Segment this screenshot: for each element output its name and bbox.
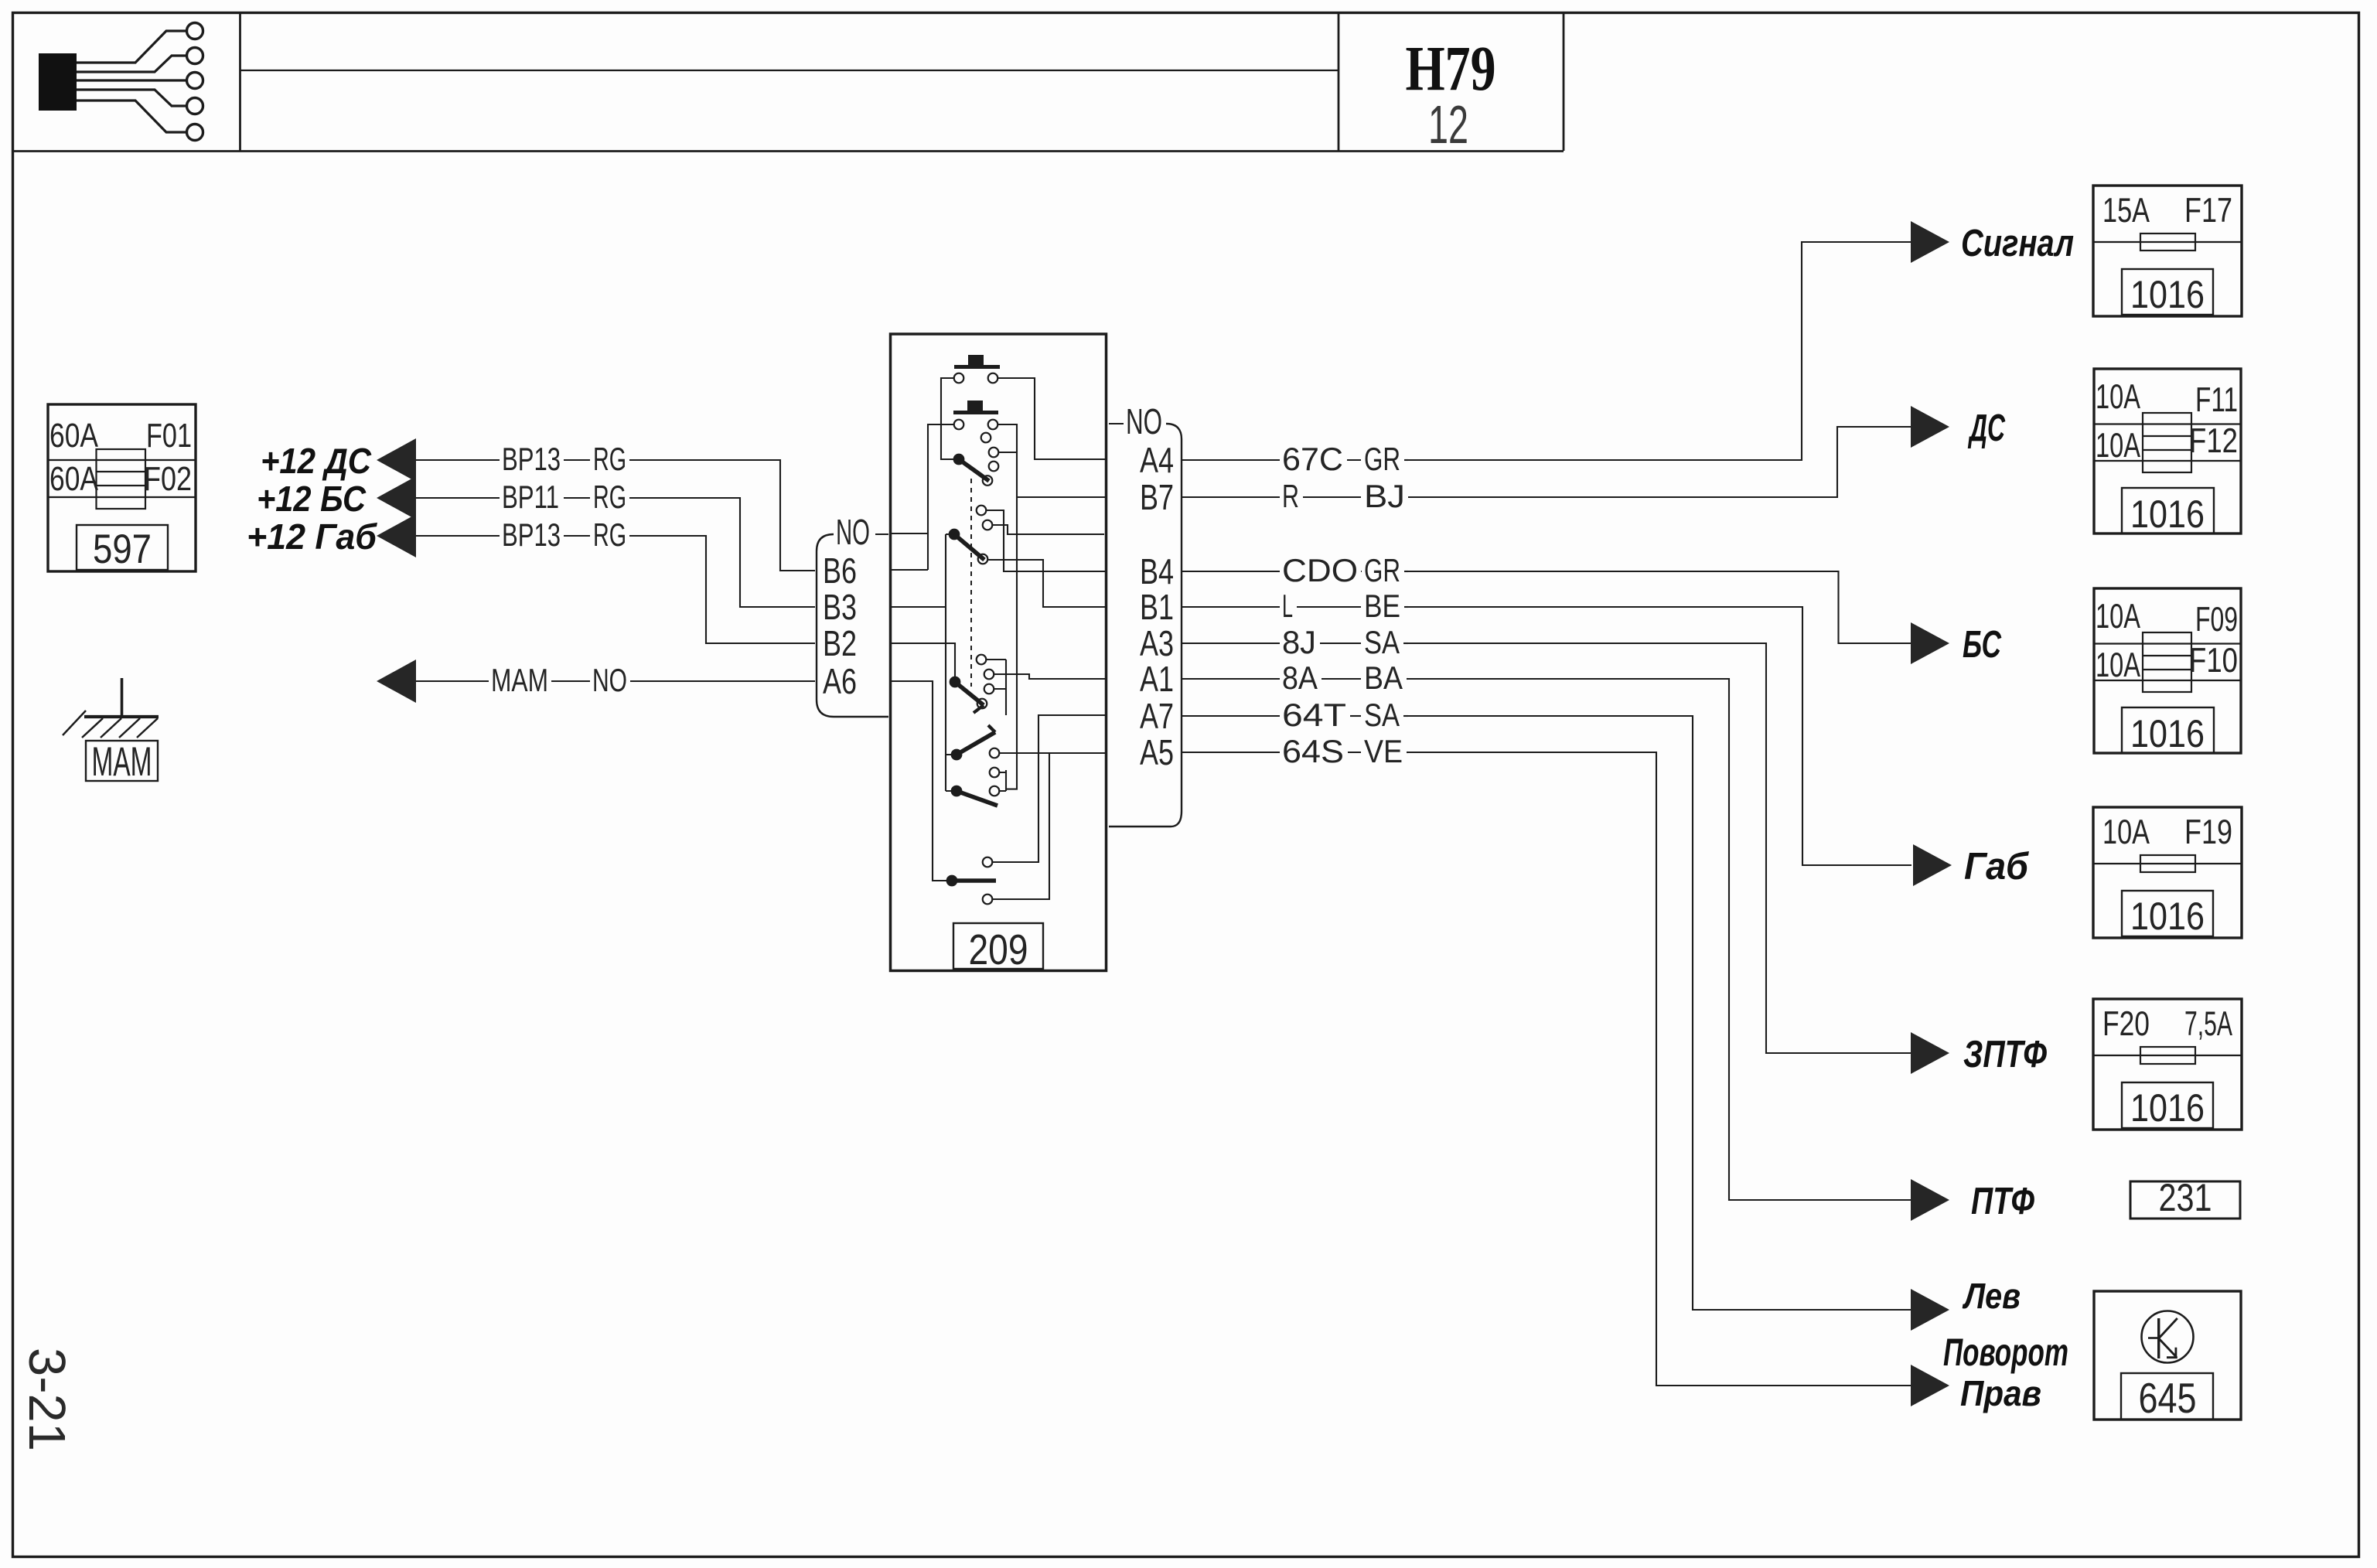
svg-text:597: 597 xyxy=(93,527,152,572)
wire +12 ДС to BP13 xyxy=(416,459,500,461)
header middle divider line xyxy=(240,70,1339,71)
645 label box xyxy=(2121,1373,2213,1420)
switch 4 pivot xyxy=(951,749,963,761)
switch 4 arm xyxy=(957,732,995,755)
svg-text:NO: NO xyxy=(592,662,627,698)
svg-text:BP13: BP13 xyxy=(502,516,561,553)
bottom contact up xyxy=(983,857,993,868)
relay symbol circle xyxy=(2142,1311,2194,1363)
switch 3 target contact xyxy=(977,699,987,709)
wire contact to inner edge 691 xyxy=(992,525,1104,534)
wire MAM arrow to label xyxy=(416,680,489,682)
wire RG to pin B6 xyxy=(629,460,815,571)
switch 1 pivot xyxy=(953,454,965,465)
svg-text:RG: RG xyxy=(593,479,626,515)
svg-text:F10: F10 xyxy=(2189,642,2238,680)
logo terminal circle 5 xyxy=(187,124,203,141)
svg-text:F12: F12 xyxy=(2189,422,2238,460)
svg-text:BA: BA xyxy=(1364,660,1403,696)
svg-text:MAM: MAM xyxy=(491,662,548,698)
svg-text:12: 12 xyxy=(1428,94,1468,155)
wire B4 CDO-GR xyxy=(1182,571,1280,572)
wire B1 to Габ xyxy=(1408,607,1911,865)
svg-text:+12 БС: +12 БС xyxy=(257,479,367,519)
wire NO right dash xyxy=(1109,423,1124,424)
wire A1 8A-BA xyxy=(1182,678,1280,680)
svg-text:A3: A3 xyxy=(1140,623,1174,663)
svg-text:R: R xyxy=(1282,478,1299,514)
svg-text:F20: F20 xyxy=(2102,1005,2150,1043)
wire switch 2 contact to pin B1 xyxy=(987,560,1105,607)
svg-text:NO: NO xyxy=(836,512,870,552)
wire A5 to Прав xyxy=(1408,752,1911,1386)
svg-text:Лев: Лев xyxy=(1962,1276,2021,1316)
relay unit 645 box xyxy=(2094,1291,2241,1420)
left connector bracket xyxy=(817,534,888,717)
ground bar xyxy=(84,715,159,718)
wire contacts to pin A1 xyxy=(987,660,1106,715)
arrow +12 Габ xyxy=(377,514,416,557)
wire A4 67C-GR xyxy=(1182,459,1280,461)
wire pin B6 to pb2 left xyxy=(892,424,954,570)
svg-text:64T: 64T xyxy=(1282,697,1346,733)
H79 title box left edge xyxy=(1338,13,1340,151)
svg-text:10A: 10A xyxy=(2096,378,2140,416)
contact d2 xyxy=(990,768,1000,778)
209 label box xyxy=(953,923,1043,969)
logo terminal circle 1 xyxy=(187,23,203,39)
wire RG to pin B3 xyxy=(629,498,815,607)
svg-text:10A: 10A xyxy=(2102,813,2150,851)
svg-text:B4: B4 xyxy=(1140,551,1174,591)
wire +12 Габ to BP13 xyxy=(416,535,500,537)
wire A5 bus to bottom contact xyxy=(993,753,1050,899)
right connector bracket xyxy=(1109,424,1182,827)
svg-text:645: 645 xyxy=(2139,1375,2197,1422)
wire pb2 right / B7 bus xyxy=(998,424,1105,791)
597 label box xyxy=(77,525,168,570)
svg-text:1016: 1016 xyxy=(2130,1086,2205,1130)
fuse box F17 (15A) xyxy=(2093,186,2242,316)
logo wire 3 xyxy=(77,79,187,81)
wire B7 to ДС xyxy=(1408,427,1911,497)
arrow +12 ДС xyxy=(377,438,416,482)
wire A7 64T-SA xyxy=(1182,715,1280,717)
fuse box F09/F10 xyxy=(2094,588,2241,753)
svg-text:64S: 64S xyxy=(1282,733,1344,769)
svg-text:ДС: ДС xyxy=(1967,407,2005,449)
svg-text:GR: GR xyxy=(1364,441,1400,477)
svg-text:ПТФ: ПТФ xyxy=(1971,1181,2034,1222)
svg-text:CDO: CDO xyxy=(1282,552,1358,588)
svg-text:BE: BE xyxy=(1364,588,1400,624)
switch unit 209 outline xyxy=(891,334,1107,971)
svg-text:F11: F11 xyxy=(2195,381,2238,419)
arrow Лев xyxy=(1911,1289,1949,1331)
wire NO to pin A6 xyxy=(630,680,815,682)
wire A5 64S-VE xyxy=(1182,752,1280,753)
wire dash BP11-RG xyxy=(564,497,590,499)
switch 3 arm xyxy=(955,682,984,705)
switch 3 arm tail xyxy=(974,705,984,713)
unit 231 box xyxy=(2130,1181,2240,1219)
arrow ПТФ xyxy=(1911,1179,1949,1221)
wire dash BP13-RG xyxy=(564,459,590,461)
svg-text:8A: 8A xyxy=(1282,660,1318,696)
wire pin A6 to bottom switch common xyxy=(892,681,946,881)
svg-text:60A: 60A xyxy=(49,418,98,455)
svg-text:RG: RG xyxy=(593,516,626,553)
MAM label box xyxy=(86,741,158,781)
svg-text:1016: 1016 xyxy=(2130,272,2205,316)
svg-text:8J: 8J xyxy=(1282,624,1316,660)
svg-text:BP13: BP13 xyxy=(502,441,561,477)
push button 1 cap xyxy=(968,355,984,366)
contact c2 xyxy=(984,670,994,680)
wire dash MAM-NO xyxy=(551,680,590,682)
wire pin NO stub inside xyxy=(892,533,928,534)
wire pin B3 common bus xyxy=(892,534,951,791)
svg-text:ЗПТФ: ЗПТФ xyxy=(1963,1034,2047,1075)
arrow БС xyxy=(1911,622,1949,664)
logo wire 4 xyxy=(77,90,187,106)
svg-text:B6: B6 xyxy=(823,551,857,591)
svg-text:Прав: Прав xyxy=(1960,1373,2041,1413)
arrow ЗПТФ xyxy=(1911,1032,1949,1074)
svg-text:B7: B7 xyxy=(1140,477,1174,517)
contact a2 xyxy=(989,448,999,458)
push button 2 left contact xyxy=(954,420,964,430)
fuse box F19 (10A) xyxy=(2093,807,2242,938)
wire +12 БС to BP11 xyxy=(416,497,500,499)
switch 4 arm hook xyxy=(988,725,995,732)
svg-text:MAM: MAM xyxy=(92,739,152,785)
bottom switch arm xyxy=(952,878,996,883)
svg-text:3-21: 3-21 xyxy=(18,1348,76,1451)
svg-text:209: 209 xyxy=(969,926,1028,973)
wire A3 to ЗПТФ xyxy=(1408,643,1911,1053)
svg-text:RG: RG xyxy=(593,441,626,477)
wire B1 L-BE xyxy=(1182,606,1280,608)
svg-text:L: L xyxy=(1282,588,1293,624)
arrow Габ xyxy=(1913,844,1952,886)
svg-text:БС: БС xyxy=(1963,624,2001,666)
contact a3 xyxy=(989,462,999,472)
svg-text:10A: 10A xyxy=(2096,427,2140,465)
push button 1 right contact xyxy=(988,373,998,383)
svg-text:67C: 67C xyxy=(1282,441,1343,477)
bottom switch pivot xyxy=(946,875,958,887)
svg-text:BP11: BP11 xyxy=(502,479,559,515)
switch 3 pivot xyxy=(950,677,961,688)
push button 2 bar xyxy=(953,411,998,414)
contact b2 xyxy=(983,520,993,530)
svg-text:B3: B3 xyxy=(823,587,857,627)
svg-text:SA: SA xyxy=(1364,697,1400,733)
logo terminal circle 2 xyxy=(187,48,203,64)
logo wire 5 xyxy=(77,101,187,132)
wire contact to pin B4 xyxy=(987,510,1106,571)
contact a1 xyxy=(981,433,991,443)
svg-text:A5: A5 xyxy=(1140,732,1174,772)
contact c1 xyxy=(977,655,987,665)
wire pin B2 to switch 3 common xyxy=(892,643,955,677)
svg-text:B1: B1 xyxy=(1140,587,1174,627)
svg-text:7,5A: 7,5A xyxy=(2184,1005,2232,1043)
arrow MAM xyxy=(377,660,416,703)
logo wire 1 xyxy=(77,31,187,63)
wire dash BP13-RG 2 xyxy=(564,535,590,537)
switch gang dashed link xyxy=(970,479,972,687)
bottom contact down xyxy=(983,895,993,905)
svg-text:10A: 10A xyxy=(2096,598,2140,636)
svg-text:+12 Габ: +12 Габ xyxy=(247,516,377,557)
switch 5 pivot xyxy=(951,786,963,797)
push button 1 bar xyxy=(954,365,1000,369)
svg-text:Габ: Габ xyxy=(1964,846,2030,888)
connector logo block xyxy=(39,53,77,111)
header band bottom line xyxy=(12,150,1564,152)
contact d3 xyxy=(990,786,1000,796)
logo terminal circle 3 xyxy=(187,73,203,89)
svg-text:F17: F17 xyxy=(2184,192,2232,230)
svg-text:NO: NO xyxy=(1126,401,1162,441)
arrow +12 БС xyxy=(377,476,416,520)
svg-text:VE: VE xyxy=(1364,733,1403,769)
relay K symbol xyxy=(2157,1318,2160,1358)
wire RG to pin B2 xyxy=(629,536,815,643)
logo wire 2 xyxy=(77,56,187,72)
contact d1 xyxy=(990,748,1000,758)
contact c3 xyxy=(984,684,994,694)
arrow Прав xyxy=(1911,1365,1949,1406)
wire NO left dash xyxy=(875,533,888,535)
contact b1 xyxy=(977,506,987,516)
switch 5 arm xyxy=(957,791,998,806)
push button 2 cap xyxy=(967,401,983,411)
switch 2 pivot xyxy=(949,529,960,540)
svg-text:GR: GR xyxy=(1364,552,1400,588)
svg-text:A1: A1 xyxy=(1140,659,1174,699)
svg-text:1016: 1016 xyxy=(2130,894,2205,938)
svg-text:BJ: BJ xyxy=(1364,478,1405,514)
sheet number 3-21 xyxy=(18,1348,76,1451)
svg-text:F19: F19 xyxy=(2184,813,2232,851)
fuse box F20 (7,5A) xyxy=(2093,999,2242,1130)
svg-text:A6: A6 xyxy=(823,661,857,701)
svg-text:SA: SA xyxy=(1364,624,1400,660)
arrow Сигнал xyxy=(1911,221,1949,263)
wire A3 8J-SA xyxy=(1182,643,1280,644)
svg-text:10A: 10A xyxy=(2096,646,2140,684)
svg-text:A4: A4 xyxy=(1140,440,1174,480)
wire pb1 right to pin A4 xyxy=(998,378,1105,459)
arrow ДС xyxy=(1911,406,1949,448)
fuse F01/F02 ladder xyxy=(97,449,146,509)
fuse box F11/F12 xyxy=(2094,369,2241,533)
svg-text:1016: 1016 xyxy=(2130,711,2205,755)
svg-text:Сигнал: Сигнал xyxy=(1961,223,2074,264)
wire A4 to Сигнал xyxy=(1408,242,1911,460)
fuse box 597 row divider 1 xyxy=(48,459,196,461)
svg-text:Поворот: Поворот xyxy=(1943,1330,2068,1374)
fuse box 597 outline xyxy=(48,404,196,571)
svg-text:B2: B2 xyxy=(823,623,857,663)
switch 1 target contact xyxy=(983,476,993,486)
wire bottom contact to pin A7 xyxy=(993,715,1106,862)
svg-text:F02: F02 xyxy=(144,461,192,498)
ground hatching xyxy=(82,718,103,738)
wire pb1 left to switch 1 common xyxy=(941,378,954,459)
ground stem xyxy=(121,678,124,717)
svg-text:+12 ДС: +12 ДС xyxy=(261,441,372,481)
svg-text:F01: F01 xyxy=(146,418,192,455)
H79 title box right edge xyxy=(1563,13,1565,151)
fuse box 597 row divider 2 xyxy=(48,496,196,498)
svg-text:H79: H79 xyxy=(1406,33,1496,104)
switch 1 arm xyxy=(959,459,989,481)
logo terminal circle 4 xyxy=(187,98,203,114)
svg-text:A7: A7 xyxy=(1140,696,1174,736)
svg-text:1016: 1016 xyxy=(2130,492,2205,536)
wire A1 to ПТФ xyxy=(1408,679,1911,1200)
push button 1 left contact xyxy=(954,373,964,383)
svg-text:F09: F09 xyxy=(2195,601,2238,639)
header logo cell divider xyxy=(239,13,241,151)
svg-text:15A: 15A xyxy=(2102,192,2150,230)
wire contact to pin A5 xyxy=(999,752,1105,754)
push button 2 right contact xyxy=(988,420,998,430)
switch 2 target contact xyxy=(978,554,988,564)
switch 2 arm xyxy=(954,534,984,560)
wire B4 to БС xyxy=(1408,571,1911,643)
svg-text:231: 231 xyxy=(2159,1175,2212,1219)
wire B7 R-BJ xyxy=(1182,496,1280,498)
svg-text:60A: 60A xyxy=(49,461,98,498)
wire A7 to Лев xyxy=(1408,716,1911,1310)
